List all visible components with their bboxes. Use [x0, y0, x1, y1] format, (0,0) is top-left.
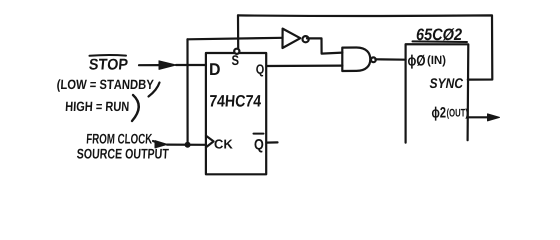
label 74HC74 [210, 95, 261, 107]
flip-flop U1 body [206, 53, 266, 174]
pin Q label [256, 64, 264, 76]
inverter U2 [283, 29, 309, 48]
pin CK label [215, 139, 233, 148]
wire Q to NAND [266, 64, 342, 67]
wire STOP input with arrow [139, 61, 206, 70]
nand U3 [342, 48, 376, 72]
wire inverter output jog [307, 38, 342, 53]
node STOP label [89, 55, 127, 70]
pin D label [210, 63, 220, 75]
label 65C02 [413, 28, 468, 42]
pin S label [232, 55, 239, 65]
wire S to top feedback [237, 15, 239, 48]
pin SYNC label [430, 78, 464, 88]
wire clock input with arrow [153, 141, 206, 148]
wire NAND output to PHI0 [375, 58, 405, 61]
wire PHI2 output with arrow [468, 114, 500, 121]
node FROM CLOCK label [77, 134, 169, 159]
wire clock to inverter input [188, 38, 283, 145]
pin PHI0(IN) label [408, 55, 445, 69]
note LOW = STANDBY [57, 79, 159, 96]
pin PHI2(OUT) label [432, 107, 468, 121]
wire Q-bar stub [266, 141, 277, 143]
junction clock node [185, 142, 191, 148]
pin Q-bar label [254, 134, 264, 153]
wire top feedback to SYNC [238, 15, 492, 79]
note HIGH = RUN [66, 95, 139, 121]
cpu U4 65C02 body (open bottom) [406, 44, 469, 142]
pin S bubble [234, 49, 239, 54]
pin CK wedge [206, 136, 214, 147]
